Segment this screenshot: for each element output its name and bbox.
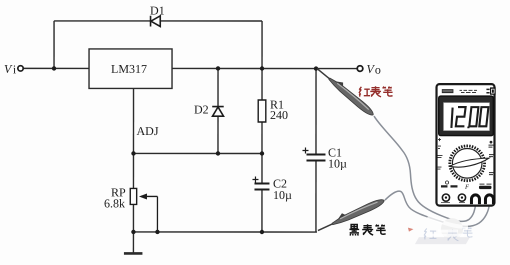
capacitor C1 bbox=[306, 155, 325, 161]
meter switch row bbox=[441, 185, 457, 187]
svg-text:D1: D1 bbox=[150, 3, 165, 17]
node: wiper bottom bbox=[155, 230, 159, 234]
wire: Vi terminal to LM317 input bbox=[24, 67, 89, 69]
meter dial panel markings bbox=[437, 138, 494, 175]
black probe bbox=[316, 195, 386, 234]
wire: bottom ground rail bbox=[133, 231, 316, 233]
wire: RP bottom to ground rail bbox=[132, 204, 134, 232]
node: D2 bottom bbox=[216, 151, 220, 155]
svg-text:240: 240 bbox=[270, 108, 288, 122]
node: R1 top bbox=[260, 66, 264, 70]
wire: ground stem bbox=[132, 232, 134, 253]
node: R1 bottom / C2 top bbox=[260, 151, 264, 155]
LCD digits 12.00 bbox=[451, 107, 488, 128]
terminal Vi bbox=[18, 66, 23, 71]
svg-text:i: i bbox=[13, 62, 17, 76]
wire: top rail drop to output rail bbox=[261, 21, 263, 68]
svg-text:10µ: 10µ bbox=[273, 188, 292, 202]
meter jacks bbox=[441, 194, 494, 204]
label black probe (hei biao bi) bbox=[349, 224, 385, 235]
regulator U1 LM317 bbox=[89, 49, 172, 89]
svg-text:ADJ: ADJ bbox=[136, 124, 158, 138]
node: C2 bottom bbox=[260, 230, 264, 234]
watermark bbox=[408, 216, 473, 244]
resistor R1 bbox=[258, 100, 266, 122]
wire: C2 branch vertical bbox=[261, 154, 263, 184]
wire: input riser to top rail bbox=[53, 21, 55, 68]
wire: red probe lead to meter jack3 bbox=[374, 116, 476, 221]
wire: ADJ pin down bbox=[132, 88, 134, 153]
svg-text:10µ: 10µ bbox=[328, 157, 347, 171]
svg-text:D2: D2 bbox=[194, 102, 209, 116]
red probe bbox=[315, 64, 377, 118]
node: Vo junction bbox=[314, 66, 318, 70]
wire: LM317 output to Vo terminal bbox=[172, 67, 356, 69]
wire: C1 branch vertical bbox=[315, 69, 317, 154]
wire: RP top connection bbox=[132, 153, 134, 188]
svg-text:o: o bbox=[375, 63, 381, 77]
wire: D2 branch vertical bbox=[217, 68, 219, 105]
node: input junction bbox=[52, 66, 56, 70]
potentiometer RP bbox=[130, 188, 136, 204]
capacitor C2 bbox=[254, 183, 269, 189]
node: ADJ junction bbox=[131, 151, 135, 155]
svg-text:V: V bbox=[4, 62, 13, 76]
dial tick ring bbox=[448, 145, 486, 183]
diode D1 bbox=[151, 16, 161, 27]
svg-text:6.8k: 6.8k bbox=[104, 196, 125, 210]
svg-text:LM317: LM317 bbox=[111, 62, 147, 76]
diode D2 bbox=[212, 107, 224, 117]
multimeter body bbox=[436, 84, 494, 206]
ground bbox=[124, 252, 143, 255]
label red probe (hong biao bi) bbox=[359, 86, 393, 97]
terminal Vo bbox=[357, 66, 363, 72]
wire: ADJ horizontal rail bbox=[133, 152, 261, 154]
node: RP bottom bbox=[131, 230, 135, 234]
meter LCD bbox=[439, 96, 494, 136]
wire: R1 branch vertical bbox=[261, 69, 263, 100]
wire: top rail through D1 bbox=[54, 20, 150, 22]
dial pointer bbox=[450, 158, 489, 167]
meter dial knob bbox=[452, 149, 482, 179]
wire: black probe lead to meter jack4 bbox=[385, 191, 490, 226]
meter top strip label bbox=[442, 89, 454, 93]
node: D2 top bbox=[216, 66, 220, 70]
